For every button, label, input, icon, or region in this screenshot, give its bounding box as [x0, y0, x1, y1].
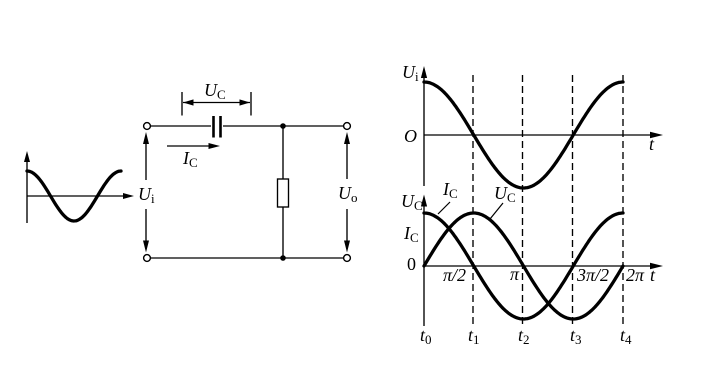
svg-text:t0: t0 — [420, 325, 432, 347]
svg-text:t2: t2 — [518, 325, 530, 347]
svg-text:IC: IC — [403, 223, 419, 245]
svg-text:UC: UC — [401, 191, 423, 213]
svg-text:Ui: Ui — [402, 62, 419, 84]
svg-text:π/2: π/2 — [443, 265, 466, 285]
svg-text:2π: 2π — [626, 265, 645, 285]
svg-text:Ui: Ui — [138, 184, 155, 206]
svg-text:π: π — [510, 264, 520, 284]
svg-text:Uo: Uo — [338, 183, 358, 205]
svg-text:UC: UC — [204, 80, 226, 102]
svg-text:3π/2: 3π/2 — [576, 265, 609, 285]
svg-text:0: 0 — [407, 254, 416, 274]
svg-text:IC: IC — [182, 148, 198, 170]
svg-text:O: O — [404, 126, 417, 146]
svg-text:t3: t3 — [570, 325, 582, 347]
svg-text:t4: t4 — [620, 325, 632, 347]
svg-text:IC: IC — [442, 179, 458, 201]
svg-text:t1: t1 — [468, 325, 480, 347]
